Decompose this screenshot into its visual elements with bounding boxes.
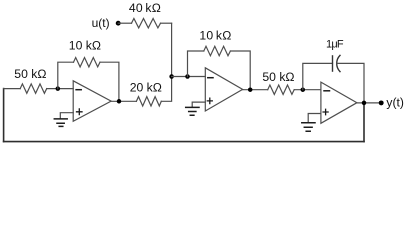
resistor R4 40kΩ [132, 19, 161, 28]
wire: ground to U3 non-inverting input [308, 114, 321, 123]
node G: output junction [362, 101, 367, 106]
node D: U2 feedback junction [185, 74, 190, 79]
node F: U3 inverting input junction [301, 87, 306, 92]
wire: U1 output to R3 [111, 100, 136, 102]
ground GND3 [302, 123, 315, 132]
svg-text:50 kΩ: 50 kΩ [14, 67, 46, 81]
wire: C1 to output node [337, 63, 364, 103]
ground GND2 [186, 107, 199, 115]
svg-text:y(t): y(t) [386, 96, 403, 110]
op-amp U1 [73, 81, 111, 122]
wire: output-to-bottom vertical [363, 103, 365, 142]
wire: R2 to U1 output node [100, 62, 119, 101]
U1 plus label [77, 109, 83, 115]
resistor R6 50kΩ [268, 85, 295, 94]
capacitor C1 1µF left plate [332, 56, 334, 71]
wire: left vertical feedback rail [3, 89, 5, 142]
wire: R5 to U2 output [230, 51, 250, 90]
svg-text:u(t): u(t) [92, 16, 110, 30]
svg-text:1μF: 1μF [326, 39, 344, 51]
wire: node A up to feedback R2 [58, 62, 74, 88]
U3 plus label [323, 109, 328, 114]
capacitor C1 1µF right curved plate [337, 55, 340, 71]
svg-text:10 kΩ: 10 kΩ [199, 29, 231, 43]
wire: R3 to summing node vertical [161, 23, 171, 101]
op-amp U3 [321, 82, 357, 123]
terminal: u(t) input dot [116, 21, 121, 26]
resistor R1 50kΩ [20, 84, 47, 93]
svg-text:40 kΩ: 40 kΩ [129, 1, 161, 15]
wire: node F up to capacitor C1 [303, 63, 333, 89]
node B: U1 output junction [117, 99, 122, 104]
wire: input rail into op-amp U1 [4, 88, 21, 90]
wire: node D up to feedback R5 [188, 51, 204, 77]
wire: ground to U2 non-inverting input [192, 102, 205, 107]
wire: u(t) to R4 [118, 22, 131, 24]
resistor R3 20kΩ [136, 97, 161, 106]
U3 minus label [324, 90, 330, 92]
wire: R6 to U3 inverting input [294, 89, 321, 91]
op-amp U2 [205, 68, 242, 111]
terminal: y(t) output dot [379, 100, 384, 105]
node E: U2 output junction [248, 87, 253, 92]
wire: U3 output to y(t) terminal [357, 102, 381, 104]
wire: R1 to U1 inverting input [47, 88, 73, 90]
ground GND1 [54, 119, 67, 127]
node A: U1 inverting input junction [56, 86, 61, 91]
wire: R4 to summing vertical [161, 22, 172, 24]
wire: bottom feedback rail [4, 141, 364, 143]
U2 plus label [207, 98, 212, 103]
wire: ground to U1 non-inverting input [60, 113, 73, 119]
svg-text:50 kΩ: 50 kΩ [262, 70, 294, 84]
svg-text:20 kΩ: 20 kΩ [130, 81, 162, 95]
node C: summing junction on vertical [169, 74, 174, 79]
wire: summing node to U2 inverting input [172, 76, 206, 78]
U1 minus label [76, 89, 81, 91]
wire: U2 output to R6 [243, 89, 268, 91]
resistor R2 10kΩ feedback of U1 [74, 58, 101, 67]
svg-text:10 kΩ: 10 kΩ [69, 39, 101, 53]
U2 minus label [208, 77, 213, 79]
resistor R5 10kΩ feedback of U2 [204, 46, 231, 55]
